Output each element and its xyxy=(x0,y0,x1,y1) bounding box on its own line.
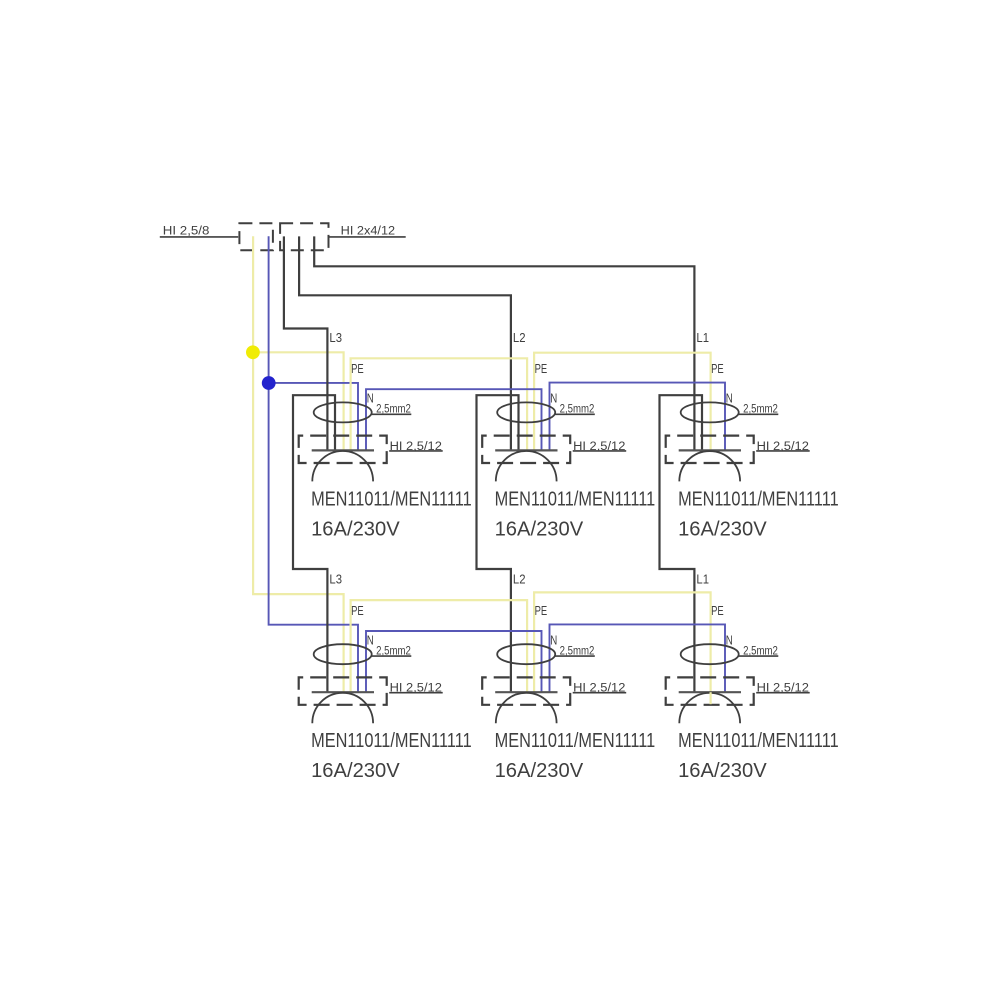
terminal box X4 (dashed) xyxy=(299,677,387,704)
wire N loop X4 to X5 xyxy=(366,631,542,692)
wire L1 loop socket X3 to X6 xyxy=(660,395,703,692)
terminal box X3 (dashed) xyxy=(666,436,754,463)
label 2,5mm2 (X4) xyxy=(371,645,411,657)
wire PE loop X2 to X3 xyxy=(534,353,711,451)
svg-text:L1: L1 xyxy=(696,572,709,587)
terminal box X2 (dashed) xyxy=(482,436,570,463)
svg-text:N: N xyxy=(726,391,733,406)
svg-text:HI 2x4/12: HI 2x4/12 xyxy=(341,223,396,237)
svg-text:MEN11011/MEN11111: MEN11011/MEN11111 xyxy=(678,487,839,510)
wire PE feed from box HI 2,5/8 xyxy=(253,236,344,692)
svg-text:PE: PE xyxy=(351,603,364,618)
svg-text:MEN11011/MEN11111: MEN11011/MEN11111 xyxy=(678,729,839,752)
svg-text:N: N xyxy=(550,632,557,647)
socket outlet X2 symbol xyxy=(495,402,557,481)
svg-text:MEN11011/MEN11111: MEN11011/MEN11111 xyxy=(311,487,472,510)
socket outlet X4 symbol xyxy=(312,644,374,723)
wire N loop X1 to X2 xyxy=(366,389,542,450)
label HI 2,5/12 (X1) xyxy=(389,439,443,453)
socket outlet X5 symbol xyxy=(495,644,557,723)
label 2,5mm2 (X1) xyxy=(371,404,411,416)
wire L3 feed xyxy=(284,236,328,450)
wire N loop X5 to X6 xyxy=(550,624,726,692)
svg-text:N: N xyxy=(367,391,374,406)
svg-text:16A/230V: 16A/230V xyxy=(311,759,400,782)
svg-text:N: N xyxy=(367,632,374,647)
wire N branch to socket X1 xyxy=(269,383,358,451)
svg-text:PE: PE xyxy=(351,361,364,376)
svg-text:L2: L2 xyxy=(513,330,526,345)
wire PE stub below terminal X6 xyxy=(709,692,711,704)
wire PE loop X1 to X2 xyxy=(351,358,527,450)
label HI 2,5/12 (X2) xyxy=(573,439,627,453)
svg-text:L3: L3 xyxy=(329,330,342,345)
terminal box X6 (dashed) xyxy=(666,677,754,704)
svg-text:16A/230V: 16A/230V xyxy=(678,759,767,782)
svg-text:L3: L3 xyxy=(329,572,342,587)
label HI 2,5/8 xyxy=(160,223,238,237)
svg-text:MEN11011/MEN11111: MEN11011/MEN11111 xyxy=(495,729,656,752)
label HI 2,5/12 (X5) xyxy=(573,681,627,695)
svg-text:PE: PE xyxy=(535,603,548,618)
wire L2 loop socket X2 to X5 xyxy=(477,395,519,692)
label HI 2,5/12 (X6) xyxy=(756,681,810,695)
svg-text:L1: L1 xyxy=(696,330,709,345)
svg-text:MEN11011/MEN11111: MEN11011/MEN11111 xyxy=(495,487,656,510)
wire L3 loop socket X1 to X4 xyxy=(293,395,335,692)
wire PE branch to socket X1 xyxy=(253,352,344,450)
wire PE loop X4 to X5 xyxy=(351,600,527,692)
label 2,5mm2 (X6) xyxy=(738,645,778,657)
svg-text:16A/230V: 16A/230V xyxy=(311,517,400,540)
svg-text:PE: PE xyxy=(711,603,724,618)
wire N loop X2 to X3 xyxy=(550,383,726,451)
svg-text:L2: L2 xyxy=(513,572,526,587)
svg-text:PE: PE xyxy=(535,361,548,376)
node PE junction xyxy=(246,345,260,359)
label HI 2,5/12 (X3) xyxy=(756,439,810,453)
socket outlet X6 symbol xyxy=(679,644,741,723)
node N junction xyxy=(262,376,276,390)
junction box HI 2x4/12 xyxy=(280,223,328,250)
svg-text:MEN11011/MEN11111: MEN11011/MEN11111 xyxy=(311,729,472,752)
socket outlet X1 symbol xyxy=(312,402,374,481)
label 2,5mm2 (X2) xyxy=(555,404,595,416)
terminal box X5 (dashed) xyxy=(482,677,570,704)
junction box HI 2,5/8 xyxy=(239,223,273,250)
wire N feed from box HI 2,5/8 xyxy=(269,236,358,692)
svg-text:16A/230V: 16A/230V xyxy=(678,517,767,540)
svg-text:HI 2,5/8: HI 2,5/8 xyxy=(163,223,210,237)
wire L2 feed xyxy=(299,236,511,450)
svg-text:16A/230V: 16A/230V xyxy=(495,759,584,782)
terminal box X1 (dashed) xyxy=(299,436,387,463)
wire L1 feed xyxy=(314,236,694,450)
svg-text:N: N xyxy=(550,391,557,406)
socket outlet X3 symbol xyxy=(679,402,741,481)
label 2,5mm2 (X5) xyxy=(555,645,595,657)
wire PE loop X5 to X6 xyxy=(534,592,711,692)
svg-text:PE: PE xyxy=(711,361,724,376)
label 2,5mm2 (X3) xyxy=(738,404,778,416)
label HI 2x4/12 xyxy=(329,223,406,237)
svg-text:16A/230V: 16A/230V xyxy=(495,517,584,540)
svg-text:N: N xyxy=(726,632,733,647)
label HI 2,5/12 (X4) xyxy=(389,681,443,695)
